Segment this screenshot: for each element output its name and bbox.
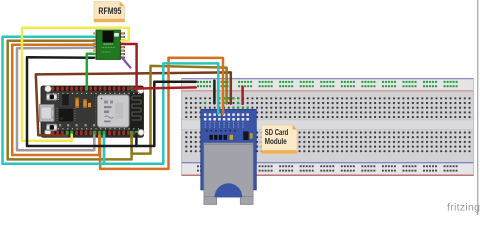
wire black: ground jumper rail to SD module GND column xyxy=(213,81,216,104)
wire maroon: ESP32 3V3 to SD module VCC xyxy=(36,72,231,135)
breadboard hole grid bottom block xyxy=(185,132,473,153)
SD card holder xyxy=(204,143,253,197)
breadboard xyxy=(181,78,474,176)
wire olive: ESP32 GPIO19 MISO to RFM95 MISO xyxy=(8,41,132,160)
wire black: ESP32 GND pin to ground bus xyxy=(135,134,138,146)
ESP32 passives row xyxy=(59,124,61,126)
wire yellow: ESP32 GPIO2 to RFM95 DIO0 xyxy=(22,28,129,141)
SD card module xyxy=(201,109,256,204)
ESP32 connected pins (green) bottom row xyxy=(66,131,69,135)
wire orange: ESP32 GPIO23 MOSI to SD module MOSI xyxy=(100,58,223,169)
ESP32 dev board U1 xyxy=(40,86,145,138)
wire olive: ESP32 GPIO19 MISO to SD module MISO xyxy=(132,66,227,154)
ESP32 bottom pin header xyxy=(52,131,142,136)
wire red: power jumper rail to SD module VCC column xyxy=(241,87,244,104)
ESP32 connected pins (green) top row xyxy=(85,87,88,91)
wire gray: ESP32 GPIO5 CS to RFM95 NSS xyxy=(17,48,94,151)
breadboard bottom rail blue line xyxy=(181,162,474,163)
capacitor C3 xyxy=(88,103,91,107)
SD module capacitors xyxy=(209,135,212,140)
note label SD Card Module xyxy=(262,125,298,154)
breadboard top rail blue line xyxy=(181,78,474,79)
breadboard bottom power rail holes xyxy=(197,165,211,167)
ESP32 pin labels xyxy=(53,92,140,94)
wire cyan: ESP32 GPIO18 SCK to RFM95 SCK xyxy=(3,37,105,164)
breadboard top rail red line xyxy=(181,90,474,91)
RFM95 right pads xyxy=(120,32,125,34)
capacitor C2 xyxy=(83,99,86,108)
wire dark red: RFM95 RST to ESP32 GPIO14 xyxy=(122,44,137,89)
SD module PCB xyxy=(201,109,256,189)
ESP32 USB-UART chip xyxy=(62,94,69,106)
wire green: RFM95 DIO1 to ESP32 GPIO xyxy=(87,54,94,89)
shield certification marks xyxy=(101,98,103,100)
SD module header holes xyxy=(204,113,207,116)
wire black: ground RFM95 GND to ESP32 GND to breadboard rail xyxy=(27,57,196,146)
SD card holder right leg xyxy=(240,197,253,205)
green connected holes above SD module xyxy=(218,97,220,99)
breadboard bottom rail red line xyxy=(181,175,474,176)
breadboard top power rail holes (connected, green) xyxy=(197,81,211,83)
ESP32 mounting holes xyxy=(45,86,51,92)
ESP32-WROOM metal shield xyxy=(98,95,130,127)
svg-text:Module: Module xyxy=(265,136,287,146)
SD module pin labels xyxy=(204,122,206,127)
SD module tan component xyxy=(230,135,233,140)
RFM95 PCB xyxy=(96,30,121,60)
SD module resistors row xyxy=(206,130,236,132)
note label RFM95 xyxy=(94,2,125,23)
wire purple: RFM95 antenna stub xyxy=(122,57,131,67)
window border right edge xyxy=(477,0,478,215)
ESP32 PCB xyxy=(41,86,144,137)
SD module thumb cutout (blue dome) xyxy=(215,183,243,197)
wire red: ESP32 VIN to breadboard positive rail xyxy=(132,87,196,88)
RFM95 LoRa module U3 xyxy=(93,30,124,60)
wire cyan: ESP32 GPIO18 SCK to SD module SCK xyxy=(104,63,218,163)
fritzing watermark xyxy=(447,202,480,214)
RFM95 left pads xyxy=(93,32,97,34)
SD module voltage regulator xyxy=(243,131,248,140)
RFM95 radio chip xyxy=(103,31,114,43)
ESP32 regulator chip U2 xyxy=(59,108,74,122)
ESP32 antenna area xyxy=(130,93,144,132)
breadboard hole grid top block xyxy=(185,97,473,118)
ESP32 micro-USB connector xyxy=(40,105,55,122)
capacitor C1 xyxy=(75,98,78,108)
ESP32 EN button xyxy=(47,94,58,101)
RFM95 silkscreen text xyxy=(104,43,114,45)
ESP32 BOOT button xyxy=(47,124,58,131)
SD card holder left leg xyxy=(204,197,217,205)
RFM95 crystal xyxy=(114,33,119,37)
svg-text:fritzing: fritzing xyxy=(447,202,480,214)
svg-text:RFM95: RFM95 xyxy=(98,6,121,17)
wire orange: ESP32 GPIO23 MOSI to RFM95 MOSI xyxy=(12,45,99,155)
ESP32 top pin header xyxy=(52,86,142,91)
